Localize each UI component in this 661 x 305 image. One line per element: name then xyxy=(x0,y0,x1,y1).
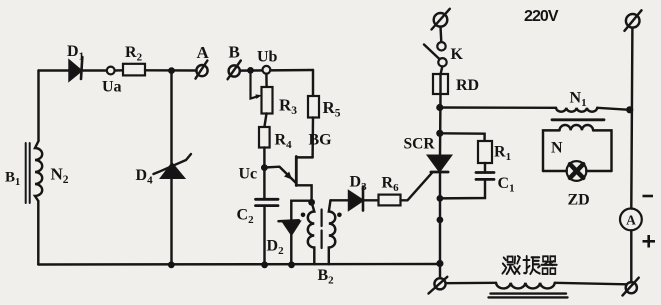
wire R5 to BG xyxy=(311,118,314,158)
terminal output left xyxy=(434,278,445,289)
svg-text:R4: R4 xyxy=(275,132,293,152)
wire vertical D4 branch lower xyxy=(170,178,172,265)
wire R5 branch vertical xyxy=(312,70,314,96)
wire exciter left xyxy=(446,282,496,285)
wire BG base2 lead xyxy=(296,156,312,158)
wire N loop bottom left xyxy=(543,170,567,172)
wire C1 to SCR cathode xyxy=(440,179,485,198)
svg-text:B: B xyxy=(229,43,240,62)
resistor R2 xyxy=(123,64,145,76)
wire BG base1 lead xyxy=(296,185,311,202)
glyph ji xyxy=(502,256,519,274)
diode D2 xyxy=(279,220,299,221)
switch K xyxy=(437,42,445,50)
resistor R4 xyxy=(259,127,270,148)
wire N loop left xyxy=(543,130,560,171)
capacitor C2 xyxy=(256,198,279,201)
wire R1 branch top xyxy=(440,133,485,141)
wire Ub to R3 xyxy=(265,74,268,87)
wire bottom main xyxy=(38,263,440,266)
label plus xyxy=(643,235,656,248)
junction dot right bus xyxy=(626,106,633,113)
terminal 220V right xyxy=(626,14,640,28)
svg-text:RD: RD xyxy=(456,77,479,94)
junction dot gate level xyxy=(437,195,444,202)
wire C2 to bottom xyxy=(263,206,265,265)
wire D3 to R6 xyxy=(363,199,379,201)
wire Uc to emitter of BG xyxy=(264,167,295,183)
svg-text:R5: R5 xyxy=(323,98,341,120)
transformer B2 polarity dots xyxy=(301,213,306,218)
svg-text:D4: D4 xyxy=(136,167,154,187)
fuse RD xyxy=(433,74,448,94)
wire right bus lower xyxy=(630,230,632,282)
junction dot pot tap xyxy=(247,67,254,74)
svg-text:D3: D3 xyxy=(350,174,368,194)
wire R4 to C2 xyxy=(263,148,265,200)
wire left vertical lower xyxy=(37,201,39,265)
junction dot bottom wire xyxy=(436,260,443,267)
exciter core xyxy=(491,292,567,294)
wire left vertical upper xyxy=(37,71,39,142)
capacitor C1 xyxy=(476,171,494,174)
junction dot D2 bottom xyxy=(288,261,295,268)
wire to D2 branch xyxy=(291,201,311,221)
svg-text:D2: D2 xyxy=(267,238,285,258)
wire B2 secondary to D3 xyxy=(331,199,350,201)
wire right bus upper xyxy=(631,28,632,209)
wire vertical D4 branch upper xyxy=(170,71,172,164)
wire terminal to switch xyxy=(439,27,442,42)
wire Ua to R2 xyxy=(115,69,123,72)
resistor R6 xyxy=(379,195,401,206)
transformer B2 core xyxy=(321,210,323,227)
svg-text:C1: C1 xyxy=(498,175,515,195)
svg-text:Ub: Ub xyxy=(257,49,278,66)
terminal B xyxy=(229,65,240,76)
exciter winding xyxy=(496,283,555,289)
terminal K top xyxy=(434,13,448,27)
svg-text:Uc: Uc xyxy=(239,166,258,183)
label jizhenqi (exciter) hand-drawn glyphs xyxy=(502,256,556,274)
lamp ZD xyxy=(567,161,587,181)
wire R6 to SCR gate xyxy=(401,172,433,200)
wire B to R5 branch xyxy=(240,69,313,72)
junction dot mains xyxy=(436,104,443,111)
wire R3 to R4 xyxy=(264,114,266,128)
junction dot D4 bottom xyxy=(168,261,175,268)
UJT BG bar xyxy=(295,157,298,186)
svg-text:SCR: SCR xyxy=(404,136,436,153)
wire N loop bottom right xyxy=(586,170,611,172)
wire D1 to Ua xyxy=(82,69,107,71)
ammeter A xyxy=(620,209,642,231)
svg-text:C2: C2 xyxy=(237,207,255,227)
glyph qi xyxy=(541,256,556,274)
svg-text:R2: R2 xyxy=(125,44,143,64)
svg-text:B1: B1 xyxy=(5,170,20,189)
svg-text:N: N xyxy=(551,140,563,157)
node junction at A branch xyxy=(168,67,175,74)
resistor R3 xyxy=(262,87,273,114)
svg-text:N1: N1 xyxy=(570,90,587,110)
junction dot R1 branch xyxy=(436,130,443,137)
junction dot mid xyxy=(437,217,444,224)
diode D3 xyxy=(349,192,363,210)
wire pot wiper hook xyxy=(251,70,258,98)
transformer B1 winding N2 xyxy=(35,141,42,201)
terminal output right xyxy=(626,282,637,293)
junction dot C2 bottom xyxy=(261,261,268,268)
node Ua xyxy=(107,67,115,75)
svg-text:R1: R1 xyxy=(494,144,511,164)
wire N1 to right bus xyxy=(597,108,629,110)
wire N loop right xyxy=(593,130,611,171)
svg-text:R3: R3 xyxy=(279,96,297,118)
wire RD to SCR line xyxy=(439,94,442,156)
label minus xyxy=(643,195,654,198)
svg-text:B2: B2 xyxy=(318,267,335,287)
zener D4 xyxy=(162,164,184,178)
svg-text:A: A xyxy=(626,213,636,228)
diode D1 xyxy=(70,61,82,80)
wire top-left horizontal to D1 xyxy=(39,69,70,71)
svg-text:BG: BG xyxy=(309,132,333,149)
wire mains to N1 xyxy=(440,106,556,109)
svg-text:220V: 220V xyxy=(524,8,559,25)
control winding N xyxy=(560,125,594,130)
transformer B1 core xyxy=(25,143,27,203)
svg-text:A: A xyxy=(197,43,210,62)
glyph zhen xyxy=(523,256,539,274)
thyristor SCR xyxy=(428,156,450,171)
svg-text:ZD: ZD xyxy=(568,192,590,209)
reactor core xyxy=(552,118,604,121)
resistor R1 xyxy=(478,141,492,163)
transformer B2 primary winding xyxy=(308,202,314,264)
svg-text:N2: N2 xyxy=(51,165,69,187)
saturable reactor N1 winding xyxy=(556,108,597,112)
svg-text:K: K xyxy=(451,46,464,63)
svg-text:D1: D1 xyxy=(67,43,84,63)
wire R2 to terminal A xyxy=(145,69,197,72)
transformer B2 secondary winding xyxy=(329,200,336,264)
wire R1 to C1 xyxy=(484,163,486,173)
svg-text:Ua: Ua xyxy=(102,79,122,96)
node Uc junction dot xyxy=(261,164,268,171)
node Ub xyxy=(263,66,271,74)
terminal A xyxy=(196,65,207,76)
junction dot BG-B2 xyxy=(308,199,315,206)
svg-text:R6: R6 xyxy=(382,175,400,195)
wire exciter right xyxy=(555,283,627,285)
resistor R5 xyxy=(308,96,319,118)
